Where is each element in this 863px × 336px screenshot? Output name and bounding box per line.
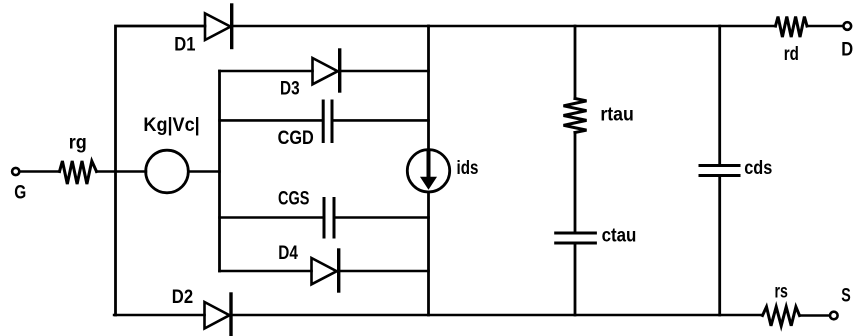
svg-text:CGD: CGD <box>278 128 314 149</box>
wire CGS branch right <box>335 216 429 219</box>
wire D3 branch right <box>342 70 429 73</box>
svg-text:rs: rs <box>775 282 788 303</box>
wire cds rail upper <box>718 26 721 164</box>
svg-text:D2: D2 <box>172 287 193 308</box>
wire middle rail upper <box>427 26 430 150</box>
wire source to inner rail <box>188 170 219 173</box>
wire middle rail lower <box>427 192 430 315</box>
diode D2 <box>205 294 232 335</box>
wire cds to bottom <box>718 177 721 315</box>
wire CGS branch left <box>220 216 325 219</box>
wire D4 branch right <box>341 270 429 273</box>
svg-text:cds: cds <box>744 158 772 179</box>
svg-text:G: G <box>14 183 26 204</box>
wire G to rg <box>20 170 59 173</box>
wire inner rail <box>218 71 221 271</box>
svg-text:rtau: rtau <box>600 104 633 125</box>
svg-text:rd: rd <box>784 44 799 65</box>
resistor rs <box>763 307 800 326</box>
diode D1 <box>205 5 232 48</box>
svg-text:CGS: CGS <box>278 189 309 210</box>
svg-text:D4: D4 <box>278 243 298 264</box>
svg-text:Kg|Vc|: Kg|Vc| <box>143 115 199 136</box>
svg-text:rg: rg <box>69 133 87 154</box>
node S terminal <box>830 312 838 320</box>
wire rtau to ctau <box>574 133 577 232</box>
capacitor CGD <box>323 101 332 142</box>
diode D4 <box>312 250 339 291</box>
wire D3 branch left <box>220 70 313 73</box>
wire left rail <box>116 26 206 315</box>
resistor rd <box>776 17 808 37</box>
wire rd to D <box>807 25 843 28</box>
node D terminal <box>843 22 851 30</box>
svg-text:ids: ids <box>457 158 479 179</box>
capacitor CGS <box>324 199 334 238</box>
svg-text:ctau: ctau <box>602 226 637 247</box>
wire CGD branch left <box>220 119 323 122</box>
wire D4 branch left <box>220 270 312 273</box>
wire bottom rail right <box>233 314 763 317</box>
source U1 Kg|Vc| <box>146 150 189 193</box>
wire rtau rail upper <box>574 26 577 99</box>
wire ctau to bottom <box>574 245 577 316</box>
svg-text:D3: D3 <box>280 79 300 100</box>
svg-text:D: D <box>841 40 853 61</box>
diode D3 <box>313 50 340 91</box>
wire CGD branch right <box>333 119 429 122</box>
resistor rg <box>60 161 97 184</box>
current source ids <box>407 150 449 192</box>
wire top rail segment D1 to mid <box>233 25 429 28</box>
wire top rail mid to rd <box>429 25 776 28</box>
wire bottom rail left <box>114 314 204 317</box>
capacitor ctau <box>556 233 596 243</box>
node G terminal <box>12 168 19 175</box>
capacitor cds <box>700 166 739 176</box>
svg-text:D1: D1 <box>174 34 196 55</box>
wire rg to source <box>97 170 147 173</box>
wire rs to S <box>800 314 830 317</box>
svg-text:S: S <box>841 286 851 307</box>
resistor rtau <box>564 99 587 133</box>
